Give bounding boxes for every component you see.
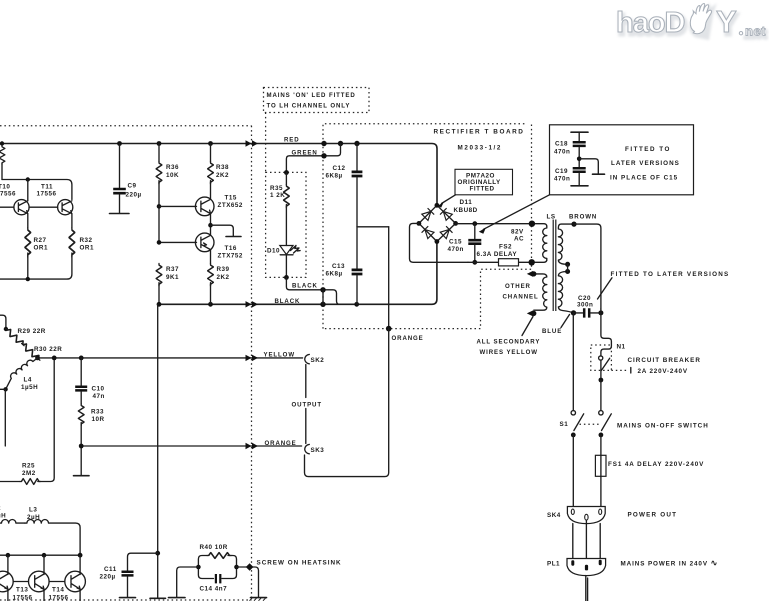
svg-text:R30 22R: R30 22R xyxy=(34,346,62,353)
svg-text:D11: D11 xyxy=(460,199,473,206)
node: loop junction xyxy=(26,177,30,181)
wire: T15 emitter to junction xyxy=(210,214,212,235)
svg-text:17556: 17556 xyxy=(0,191,16,198)
svg-text:OR1: OR1 xyxy=(34,245,48,252)
wire: R27 to emitter rail xyxy=(27,253,29,279)
node: brown terminal dot xyxy=(571,222,576,227)
svg-text:R36: R36 xyxy=(166,164,179,171)
svg-text:CHANNEL: CHANNEL xyxy=(503,293,539,300)
arrow: black rail board-exit arrows xyxy=(246,301,259,307)
svg-text:10R: 10R xyxy=(92,416,105,423)
wire: L4 junction tails xyxy=(0,389,6,446)
wire: mains live drop into N1 xyxy=(601,309,612,356)
node: T15/T16 junction xyxy=(208,223,213,228)
wire: board edge link xyxy=(322,290,324,305)
svg-text:R39: R39 xyxy=(217,266,230,273)
svg-text:PL1: PL1 xyxy=(547,560,560,567)
svg-text:R27: R27 xyxy=(34,237,47,244)
wire: C12 to C13 xyxy=(356,178,358,270)
svg-text:AC: AC xyxy=(514,235,524,242)
wire: SK4 to PL1 links xyxy=(573,520,600,567)
node: heatsink screw dot on board edge xyxy=(246,563,254,571)
svg-text:2µH: 2µH xyxy=(27,514,40,521)
pointer from PM7A20 box to bridge xyxy=(442,195,456,204)
svg-text:R37: R37 xyxy=(166,266,179,273)
svg-text:C19: C19 xyxy=(555,168,568,175)
node: C18/C19 junction xyxy=(577,157,582,162)
fuse FS2 6.3A delay xyxy=(468,260,547,262)
resistor R27 0R1 xyxy=(25,228,31,257)
svg-text:R35: R35 xyxy=(270,185,283,192)
svg-text:Y: Y xyxy=(716,4,737,39)
arrow: yellow rail arrows xyxy=(246,355,259,361)
dashed link from note box to LED enclosure xyxy=(265,113,267,173)
transformer secondary winding (this channel) xyxy=(543,226,547,260)
wire: GREEN wire from rail to LED网络 top xyxy=(286,144,340,173)
node: R40 network nodes xyxy=(196,565,201,570)
svg-text:POWER OUT: POWER OUT xyxy=(628,511,678,518)
svg-text:LS: LS xyxy=(547,213,556,220)
hand glyph of logo xyxy=(690,4,711,34)
transistor T10 xyxy=(14,200,29,215)
svg-text:BLACK: BLACK xyxy=(292,282,318,289)
diode D11c (bottom-left arm) xyxy=(422,226,434,238)
svg-text:T11: T11 xyxy=(41,184,53,191)
capacitor C10 47n xyxy=(80,358,82,386)
mains on led note dashed box xyxy=(264,88,370,113)
chassis ground symbol xyxy=(251,597,267,599)
wire: 0V BLACK rail xyxy=(158,243,437,304)
wire: heatsink tag from junction xyxy=(211,225,234,236)
resistor R40 10R with C14 4n7 parallel xyxy=(198,556,207,568)
svg-text:N1: N1 xyxy=(617,344,626,351)
svg-text:YELLOW: YELLOW xyxy=(264,352,295,359)
svg-text:CIRCUIT BREAKER: CIRCUIT BREAKER xyxy=(628,357,701,364)
svg-text:T15: T15 xyxy=(225,195,237,202)
svg-text:ALL SECONDARY: ALL SECONDARY xyxy=(477,338,541,345)
wire: T16 emitter to R39 xyxy=(210,250,212,264)
svg-text:ZTX752: ZTX752 xyxy=(218,253,243,260)
node: primary tap dots xyxy=(565,262,570,267)
resistor R37 9K1 xyxy=(156,264,162,286)
wire: breaker to switch S1 right pole xyxy=(600,360,602,410)
svg-text:2K2: 2K2 xyxy=(217,274,230,281)
svg-text:MAINS 'ON' LED FITTED: MAINS 'ON' LED FITTED xyxy=(267,92,356,99)
node: bridge vertex dots xyxy=(435,203,440,208)
transistor T12 xyxy=(7,555,9,574)
svg-text:MAINS POWER IN 240V ∿: MAINS POWER IN 240V ∿ xyxy=(621,558,719,567)
resistor R39 2K2 xyxy=(208,264,214,286)
svg-text:C11: C11 xyxy=(104,566,117,573)
svg-text:ORANGE: ORANGE xyxy=(265,440,297,447)
node: black wire dots on board edge xyxy=(320,287,325,292)
wire: YELLOW output rail xyxy=(38,357,303,359)
svg-text:OR1: OR1 xyxy=(80,245,94,252)
wire: PL1 earth tail xyxy=(586,576,588,601)
node: C20 right dot xyxy=(598,310,603,315)
svg-text:10K: 10K xyxy=(166,172,179,179)
svg-text:6.3A DELAY: 6.3A DELAY xyxy=(477,251,518,258)
svg-text:6K8µ: 6K8µ xyxy=(326,271,343,278)
rectifier T board dashed outline xyxy=(323,124,532,329)
svg-text:net: net xyxy=(745,24,766,39)
transistor T15 ZTX652 xyxy=(195,197,214,216)
inductor L4 1u5H (diagonal) xyxy=(6,358,38,389)
svg-text:RECTIFIER T BOARD: RECTIFIER T BOARD xyxy=(434,129,525,136)
transistor T14 17556 xyxy=(79,555,81,574)
pointer from note box to C15 xyxy=(484,195,550,230)
transformer primary upper winding xyxy=(558,224,574,264)
svg-text:WIRES YELLOW: WIRES YELLOW xyxy=(480,349,538,356)
LED D10 xyxy=(280,246,293,255)
capacitor C11 220u xyxy=(128,553,158,571)
wire: left board dashed outline right edge xyxy=(251,126,253,597)
svg-text:R32: R32 xyxy=(80,237,93,244)
node: R25 riser dot xyxy=(52,356,57,361)
wire: R25 to yellow rail riser xyxy=(38,358,54,482)
svg-text:17556: 17556 xyxy=(49,595,69,601)
svg-text:T14: T14 xyxy=(52,587,64,594)
svg-text:M2033-1/2: M2033-1/2 xyxy=(458,145,503,152)
svg-text:BLACK: BLACK xyxy=(275,298,301,305)
svg-text:T16: T16 xyxy=(225,245,237,252)
svg-text:220µ: 220µ xyxy=(100,574,116,581)
socket SK2 xyxy=(305,354,310,363)
svg-text:R33: R33 xyxy=(91,408,104,415)
wire: S1 left pole down to SK4 xyxy=(572,435,574,507)
socket SK3 xyxy=(305,444,310,453)
transistor T11 xyxy=(58,200,73,215)
svg-text:82V: 82V xyxy=(511,228,524,235)
wire: +ve RED rail xyxy=(0,144,437,204)
node: R29 top dot xyxy=(4,327,8,331)
resistor R36 10K xyxy=(158,144,160,162)
node: black rail junction dots xyxy=(208,302,213,307)
resistor R25 2M2 xyxy=(0,481,20,483)
arrow: red rail board-exit arrows xyxy=(246,140,259,146)
wire: C18/C19 tap stub xyxy=(579,159,598,174)
wire: orange drop to board edge xyxy=(388,227,390,329)
node: orange rail start dot xyxy=(79,444,84,449)
svg-text:D10: D10 xyxy=(267,248,280,255)
capacitor C18 470n xyxy=(571,131,588,133)
node: C10 branch dot xyxy=(79,356,84,361)
svg-text:ZTX652: ZTX652 xyxy=(218,202,243,209)
svg-text:L4: L4 xyxy=(24,376,32,383)
transformer LS core xyxy=(553,220,556,312)
wire: R35 to LED D10 xyxy=(285,205,287,246)
diode D11b (top-right arm) xyxy=(440,208,452,220)
svg-text:470n: 470n xyxy=(554,148,570,155)
svg-text:9K1: 9K1 xyxy=(166,274,179,281)
svg-text:FITTED: FITTED xyxy=(470,186,495,193)
wire: left board dashed outline top edge xyxy=(0,125,252,127)
svg-text:220µ: 220µ xyxy=(126,192,142,199)
svg-text:FS1 4A DELAY 220V-240V: FS1 4A DELAY 220V-240V xyxy=(608,461,704,468)
node: blue terminal dot xyxy=(571,310,576,315)
svg-text:S1: S1 xyxy=(560,421,569,428)
wire: LED cathode to black wire xyxy=(285,255,287,278)
svg-text:OUTPUT: OUTPUT xyxy=(292,401,322,408)
transistor T13 17556 xyxy=(43,555,45,574)
resistor R35 1K2 xyxy=(285,173,287,185)
pointer from label to secondary wire xyxy=(522,317,533,336)
capacitor C12 6K8u xyxy=(356,144,358,172)
plug PL1 xyxy=(567,559,606,576)
wire: left board dashed outline bottom edge xyxy=(0,599,252,601)
resistor R29 22R (diagonal) xyxy=(4,327,26,348)
resistor (unlabelled, left edge) xyxy=(0,146,5,165)
terminal bar at 0V drop bottom xyxy=(150,597,166,599)
resistor R32 0R1 xyxy=(71,214,73,228)
wire: S1 right pole down through FS1 xyxy=(600,435,602,507)
svg-text:C14 4n7: C14 4n7 xyxy=(200,586,228,593)
svg-text:haoD: haoD xyxy=(616,7,685,39)
wire: blue return down to S1 left pole xyxy=(572,313,574,411)
svg-text:µH: µH xyxy=(0,512,6,519)
wire: T16 base line xyxy=(159,241,197,243)
svg-text:C13: C13 xyxy=(332,263,345,270)
svg-text:R25: R25 xyxy=(22,463,35,470)
wire: AC top wire bridge to transformer xyxy=(456,224,547,226)
svg-text:BROWN: BROWN xyxy=(569,213,597,220)
wire: R40 right leg to heatsink screw xyxy=(237,567,259,597)
wire: emitter rail xyxy=(0,253,72,279)
svg-text:47n: 47n xyxy=(93,393,105,400)
svg-text:T10: T10 xyxy=(0,184,10,191)
wire: R33 to orange rail and stub xyxy=(80,423,82,476)
svg-text:IN PLACE OF C15: IN PLACE OF C15 xyxy=(610,175,678,182)
node: collector rail dots xyxy=(6,553,11,558)
svg-text:1 2K: 1 2K xyxy=(270,192,285,199)
wire: left resistor lead down to collector loop xyxy=(1,164,3,180)
wire: T10 collector drop xyxy=(27,180,29,201)
wire: LED return to black rail xyxy=(286,277,339,304)
svg-text:MAINS ON-OFF SWITCH: MAINS ON-OFF SWITCH xyxy=(617,422,709,429)
svg-text:FITTED TO LATER VERSIONS: FITTED TO LATER VERSIONS xyxy=(611,271,730,278)
svg-text:C12: C12 xyxy=(333,165,346,172)
svg-text:C9: C9 xyxy=(128,183,137,190)
node: R35 top dot xyxy=(284,170,289,175)
wire: long 0V drop from black rail xyxy=(157,304,159,598)
svg-text:RED: RED xyxy=(284,137,300,144)
node: LED bottom dot xyxy=(284,275,289,280)
switch S1 xyxy=(571,411,575,415)
wire: centre-tap link to orange drop xyxy=(357,226,389,228)
capacitor C13 6K8u xyxy=(352,270,363,274)
svg-text:17556: 17556 xyxy=(37,191,57,198)
wire: output link SK2-SK3 xyxy=(305,365,307,444)
C18/C19 later versions note box xyxy=(550,125,694,195)
pointer from label to C20 xyxy=(598,278,613,299)
node: orange dot on dashed edge xyxy=(386,326,392,332)
svg-text:300n: 300n xyxy=(577,302,593,309)
svg-text:SK3: SK3 xyxy=(311,447,325,454)
wire: T10/T11 collector loop xyxy=(2,180,72,200)
wire: C13 to black rail xyxy=(356,276,358,305)
svg-text:BLUE: BLUE xyxy=(542,328,562,335)
wire: T10 base line from board edge xyxy=(0,206,14,208)
node: output node dot xyxy=(35,356,40,361)
svg-text:OTHER: OTHER xyxy=(505,283,531,290)
node: red rail junction dots xyxy=(0,141,4,145)
svg-text:R29 22R: R29 22R xyxy=(18,328,46,335)
capacitor C20 300n xyxy=(574,312,601,314)
svg-text:470n: 470n xyxy=(554,175,570,182)
svg-text:C18: C18 xyxy=(555,140,568,147)
inductor L2 (left edge) xyxy=(0,520,25,524)
diode D11a (top-left arm) xyxy=(422,208,434,220)
node: other channel terminals with chevrons xyxy=(531,271,536,276)
transformer secondary winding (other channel) xyxy=(534,274,547,310)
svg-text:SCREW ON HEATSINK: SCREW ON HEATSINK xyxy=(257,559,342,566)
fuse FS1 4A delay xyxy=(595,455,606,476)
terminal bar below R33 xyxy=(74,475,90,477)
svg-text:1µ5H: 1µ5H xyxy=(21,384,38,391)
node: AC bottom board edge dot xyxy=(529,259,535,265)
svg-text:2: 2 xyxy=(0,505,1,512)
svg-text:GREEN: GREEN xyxy=(292,149,318,156)
pointer from BLUE to primary bottom xyxy=(561,315,570,328)
svg-text:KBU8D: KBU8D xyxy=(454,207,478,214)
node: R27 emitter rail junction xyxy=(26,277,30,281)
wire: output stage collector rail xyxy=(0,554,80,556)
transformer primary lower winding xyxy=(558,272,573,313)
wire: T15 base line xyxy=(159,205,197,207)
svg-text:470n: 470n xyxy=(448,246,464,253)
svg-text:2A 220V-240V: 2A 220V-240V xyxy=(638,368,688,375)
wire: bridge left vertex loop to AC bottom xyxy=(410,223,469,262)
svg-text:FITTED TO: FITTED TO xyxy=(625,146,671,153)
diode D11d (bottom-right arm) xyxy=(440,226,452,238)
capacitor C19 470n xyxy=(573,168,586,172)
capacitor C9 220u xyxy=(119,144,121,190)
svg-text:R38: R38 xyxy=(216,164,229,171)
wire: R40 left leg to ground bar xyxy=(177,567,199,597)
resistor R38 2K2 xyxy=(210,144,212,162)
inductor L3 2uH xyxy=(25,520,80,556)
transistor T16 ZTX752 xyxy=(195,233,214,252)
wire: R38 to T15 collector xyxy=(210,181,212,199)
svg-text:LATER VERSIONS: LATER VERSIONS xyxy=(611,160,680,167)
socket SK4 xyxy=(567,507,605,524)
svg-text:17556: 17556 xyxy=(13,595,33,601)
resistor R30 22R (diagonal) xyxy=(20,341,42,362)
svg-text:TO LH CHANNEL ONLY: TO LH CHANNEL ONLY xyxy=(267,103,351,110)
arrow: orange rail arrows xyxy=(246,443,259,449)
svg-text:L3: L3 xyxy=(29,506,37,513)
node: C11 link dot xyxy=(155,551,160,556)
svg-text:R40 10R: R40 10R xyxy=(200,544,228,551)
svg-text:ORANGE: ORANGE xyxy=(392,335,424,342)
resistor R33 10R xyxy=(78,404,84,425)
svg-text:6K8µ: 6K8µ xyxy=(326,173,343,180)
haoDY.net watermark logo xyxy=(616,4,768,42)
svg-text:FS2: FS2 xyxy=(499,243,512,250)
LED dashed enclosure xyxy=(266,172,306,277)
node: green wire dot on board edge xyxy=(321,153,326,158)
node: L4 bottom dot xyxy=(3,387,7,391)
svg-text:2K2: 2K2 xyxy=(216,172,229,179)
wire: R36 bottom to T15 base chain xyxy=(158,181,160,243)
wire: base link T10-T11 xyxy=(29,206,57,208)
PM7A20 note box xyxy=(455,169,513,195)
wire: feed into R29 from board edge xyxy=(0,315,6,329)
wire: T10 emitter to R27 xyxy=(27,214,29,228)
wire: ORANGE output rail xyxy=(81,445,301,447)
bridge rectifier D11 xyxy=(419,205,456,241)
svg-text:C10: C10 xyxy=(92,385,105,392)
wire: orange return loop from rectifier to SK3 xyxy=(305,329,389,477)
svg-text:C15: C15 xyxy=(449,239,462,246)
svg-text:T13: T13 xyxy=(16,587,28,594)
node: T15 base junction xyxy=(157,204,162,209)
svg-text:2M2: 2M2 xyxy=(22,470,36,477)
wire: brown wire to mains drop xyxy=(574,224,601,309)
node: C15 top / board edge dots xyxy=(472,221,477,226)
svg-text:SK4: SK4 xyxy=(547,512,561,519)
svg-text:SK2: SK2 xyxy=(311,357,325,364)
capacitor C15 470n xyxy=(474,224,476,240)
